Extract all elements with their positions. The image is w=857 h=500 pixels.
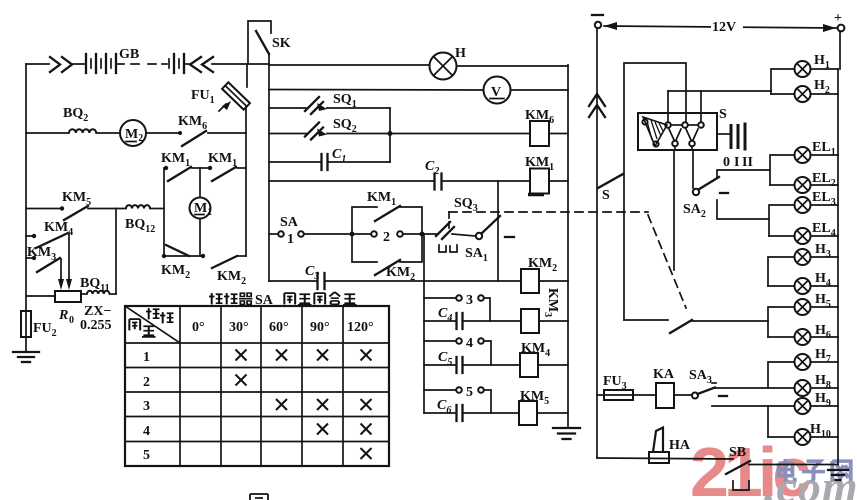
svg-text:S: S: [602, 188, 610, 203]
capacitor C1: [269, 154, 390, 170]
ground control rail: [553, 428, 580, 439]
svg-text:5: 5: [466, 385, 473, 400]
relay coil KA: [656, 383, 692, 408]
svg-text:0: 0: [69, 315, 74, 326]
label contact 4: [466, 336, 473, 351]
watermark com: [764, 461, 857, 500]
wire M1 block left: [163, 168, 165, 256]
label KM1 bypass: [367, 190, 396, 208]
contact KM2 left bottom: [162, 245, 203, 258]
svg-text:1: 1: [143, 350, 150, 365]
table grid: [125, 306, 389, 466]
svg-text:II: II: [742, 155, 753, 170]
label SA3: [689, 368, 712, 386]
label FU1: [191, 88, 215, 106]
label col 90: [310, 320, 330, 335]
svg-text:90°: 90°: [310, 320, 330, 335]
contact SA 5: [424, 387, 491, 413]
lamp H4: [768, 278, 838, 294]
label S blade: [602, 188, 610, 203]
label BQ2: [63, 106, 88, 124]
label SQ1: [333, 92, 357, 110]
capacitor C2: [269, 174, 530, 190]
connector arrows >>: [50, 57, 85, 72]
terminal 12V minus: [592, 15, 603, 28]
switch S blade: [598, 174, 623, 188]
label SQ3: [454, 196, 478, 214]
label contact 2: [383, 230, 390, 245]
label BQ11: [80, 276, 110, 294]
lamp H10: [768, 429, 838, 445]
lamp H6: [768, 329, 838, 345]
voltmeter V: [484, 77, 569, 104]
wire SQ1-C1 riser: [389, 108, 391, 162]
svg-text:5: 5: [143, 448, 150, 463]
label KM2 coil: [528, 256, 557, 274]
label EL1: [812, 140, 836, 158]
wire plus rail: [838, 31, 840, 465]
lamp EL3: [769, 197, 838, 236]
svg-text:SA: SA: [280, 215, 299, 230]
relay coil KM3: [521, 309, 568, 333]
lamp EL1: [770, 147, 838, 185]
node bypass right: [420, 232, 425, 237]
lamp H8: [768, 380, 838, 396]
position bar upper: [528, 193, 544, 197]
label R0: [58, 308, 74, 326]
label H1: [814, 53, 830, 71]
contact SA 4: [424, 338, 491, 365]
label KM2 left: [161, 263, 190, 281]
inductor BQ12: [126, 205, 164, 208]
label C5: [438, 350, 452, 368]
lamp EL4: [769, 228, 838, 244]
contact KM4: [26, 233, 72, 290]
relay coil KM5: [519, 401, 568, 425]
label KM4 coil: [521, 341, 550, 359]
label KA: [653, 367, 675, 382]
label BQ12: [125, 217, 155, 235]
label C1: [332, 147, 346, 165]
label C6: [437, 398, 451, 416]
svg-text:1: 1: [287, 232, 294, 247]
label H2: [814, 78, 830, 96]
wire control return rail: [567, 65, 569, 428]
table X marks row3: [276, 399, 372, 410]
wire box bottom left: [674, 147, 675, 271]
switch box triangle: [642, 117, 667, 147]
svg-text:HA: HA: [669, 438, 691, 453]
svg-text:120°: 120°: [347, 320, 374, 335]
contact SA 1: [269, 231, 352, 237]
wire SA3 upper throw: [713, 387, 768, 389]
label H3: [815, 242, 831, 260]
table X marks row2: [236, 375, 247, 386]
label col 60: [269, 320, 289, 335]
label H8: [815, 373, 831, 391]
switch box S: [638, 113, 717, 150]
svg-text:12V: 12V: [712, 20, 736, 35]
label contact 1: [287, 232, 294, 247]
fuse FU3: [597, 390, 656, 400]
svg-text:4: 4: [466, 336, 473, 351]
table X marks row4: [317, 424, 372, 435]
relay coil KM4: [520, 353, 568, 377]
svg-text:0: 0: [723, 155, 730, 170]
contact KM1 left: [164, 166, 200, 181]
fuse FU1: [219, 64, 250, 133]
wire battery row to SK: [212, 63, 269, 65]
svg-text:3: 3: [466, 293, 473, 308]
wire box bottom right: [692, 147, 693, 189]
relay coil KM1: [530, 169, 568, 194]
label KM5 coil: [520, 389, 549, 407]
connector arrows <<: [190, 57, 213, 72]
node bypass left: [350, 232, 355, 237]
label C2: [425, 159, 439, 177]
lamp H9: [768, 398, 838, 437]
fuse FU2: [21, 311, 31, 337]
label FU3: [603, 374, 627, 392]
ground right: [828, 470, 848, 480]
motor M1: [190, 168, 213, 256]
svg-text:3: 3: [143, 399, 150, 414]
capacitor C3: [269, 273, 424, 289]
relay coil KM6: [530, 121, 568, 146]
label ZX-0.255: [80, 304, 112, 333]
label KM4: [44, 220, 73, 238]
wire M1 block right: [245, 133, 247, 256]
label EL2: [812, 171, 836, 189]
terminal 12V plus: [834, 11, 844, 31]
watermark 21ic: [690, 433, 809, 500]
svg-text:KA: KA: [653, 367, 675, 382]
table X marks row5: [361, 448, 372, 459]
label row 2: [143, 375, 150, 390]
label row 5: [143, 448, 150, 463]
label SA1: [465, 246, 488, 264]
position dash SA3: [719, 395, 727, 397]
label SQ2: [333, 117, 357, 135]
wire 12V line: [604, 22, 836, 32]
switch box contacts: [665, 122, 704, 128]
label contact 3: [466, 293, 473, 308]
lamp H3: [768, 249, 838, 286]
label H5: [815, 292, 831, 310]
label H10: [810, 422, 831, 440]
lamp H5: [768, 299, 838, 337]
label KM2 right: [217, 269, 246, 287]
table header diagonal: [125, 306, 180, 343]
svg-text:60°: 60°: [269, 320, 289, 335]
contact KM1 right: [200, 166, 246, 181]
contact KM3: [26, 256, 64, 290]
wire left rail: [25, 64, 27, 311]
lamp H7: [768, 354, 838, 388]
wire H lamp row: [269, 64, 430, 66]
label SK: [272, 36, 291, 51]
battery GB left group: [86, 54, 116, 73]
battery GB right group: [169, 54, 189, 73]
label H4: [815, 271, 831, 289]
label KM1 coil: [525, 155, 554, 173]
node battery row corner: [26, 63, 49, 65]
contact KM2 right bottom: [201, 254, 246, 268]
svg-text:SB: SB: [729, 445, 746, 460]
label KM6 coil: [525, 108, 554, 126]
wire box top bridge: [668, 91, 771, 122]
wire contact bank rail: [423, 234, 425, 413]
svg-text:GB: GB: [119, 47, 139, 62]
label row 3: [143, 399, 150, 414]
svg-text:ZX−: ZX−: [84, 304, 111, 319]
label EL4: [812, 221, 836, 239]
ground left: [13, 337, 39, 362]
contact SQ1: [269, 97, 390, 114]
wire SA2 lower throw: [717, 200, 769, 219]
dashed link SQ3: [449, 212, 686, 308]
label H6: [815, 323, 831, 341]
capacitor C6: [424, 405, 519, 421]
lamp H2: [771, 86, 838, 102]
label table title: [209, 292, 357, 308]
position dash SA2: [720, 192, 728, 194]
switch SA3: [692, 383, 716, 399]
label 0 I II: [723, 155, 753, 170]
inductor BQ2: [26, 129, 96, 133]
label H9: [815, 391, 831, 409]
label col 120: [347, 320, 374, 335]
position dash SA1: [505, 236, 514, 238]
selector bars 0 I II: [718, 123, 745, 151]
label KM5: [62, 190, 91, 208]
inductor BQ11: [81, 291, 116, 294]
svg-text:H: H: [455, 46, 466, 61]
watermark dianziwang: [779, 459, 851, 482]
label EL3: [812, 190, 836, 208]
label KM1 left: [161, 151, 190, 169]
resistor R0: [26, 291, 81, 302]
horn HA: [649, 428, 669, 464]
label row 1: [143, 350, 150, 365]
label 12V: [711, 17, 743, 35]
label contact 5: [466, 385, 473, 400]
switch SK: [248, 21, 271, 64]
switch SA2: [693, 177, 719, 195]
label H7: [815, 347, 831, 365]
capacitor C5: [424, 357, 520, 373]
wire SK rail: [268, 54, 270, 281]
svg-text:I: I: [734, 155, 739, 170]
wire bottom rail: [597, 458, 733, 459]
contact KM6: [178, 131, 246, 146]
contact KM5: [26, 206, 126, 220]
wire KM1 coil drop: [497, 181, 499, 281]
label SA2: [683, 202, 706, 220]
svg-text:0°: 0°: [192, 320, 205, 335]
pushbutton mark SA1: [439, 245, 457, 252]
contact SA 2: [352, 231, 422, 237]
wire SA2 upper throw: [717, 170, 770, 178]
wire V row: [269, 89, 484, 92]
wire BQ11 riser: [115, 209, 117, 295]
contact SQ3: [422, 222, 475, 239]
label HA: [669, 438, 691, 453]
switch SA1: [476, 216, 500, 239]
svg-text:2: 2: [143, 375, 150, 390]
svg-text:30°: 30°: [229, 320, 249, 335]
label col 30: [229, 320, 249, 335]
label H: [455, 46, 466, 61]
wire dashed battery link: [117, 63, 167, 65]
label header chudian: [129, 319, 155, 337]
switch box wipers: [669, 129, 698, 146]
svg-text:.com: .com: [764, 461, 857, 500]
svg-text:4: 4: [143, 424, 150, 439]
label col 0: [192, 320, 205, 335]
label row 4: [143, 424, 150, 439]
label figure fragment: [250, 494, 268, 500]
lamp EL2: [770, 177, 838, 193]
contact SQ2: [269, 123, 530, 140]
wire SA3 lower throw: [712, 405, 768, 407]
label SA: [280, 215, 299, 230]
label C3: [305, 264, 319, 282]
wire beam switch row: [624, 320, 768, 333]
wire switched rail: [624, 63, 686, 320]
label GB: [119, 47, 139, 62]
label S box: [719, 107, 727, 122]
label FU2: [33, 321, 57, 339]
lamp H1: [771, 61, 838, 94]
lamp H: [430, 53, 569, 80]
svg-text:R: R: [58, 308, 68, 323]
label C4: [438, 306, 452, 324]
switch SB: [726, 461, 838, 474]
motor M2: [96, 120, 180, 146]
wire supply rail minus: [596, 28, 598, 457]
label header dangwei: [146, 308, 174, 323]
svg-text:SK: SK: [272, 36, 291, 51]
contact KM2 bypass: [352, 234, 422, 275]
svg-text:S: S: [719, 107, 727, 122]
table X marks row1: [236, 350, 372, 361]
svg-text:0.255: 0.255: [80, 318, 112, 333]
node SQ2 junction: [388, 131, 393, 136]
label KM6: [178, 114, 207, 132]
label KM3 coil rotated: [542, 288, 560, 317]
contact KM1 bypass: [352, 206, 422, 234]
pushbutton mark SB: [733, 481, 749, 490]
svg-text:2: 2: [383, 230, 390, 245]
relay coil KM2: [424, 269, 568, 293]
capacitor C4: [424, 313, 521, 329]
label KM3: [27, 245, 56, 263]
contact SA 3: [424, 295, 490, 321]
label KM2 bypass: [386, 265, 415, 283]
connector chevron rail: [589, 94, 605, 117]
label KM1 right: [208, 151, 237, 169]
label SB: [729, 445, 746, 460]
